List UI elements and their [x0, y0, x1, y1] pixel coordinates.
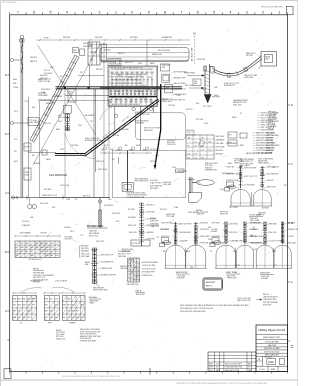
svg-text:CONN VENT: CONN VENT — [120, 129, 129, 131]
det D-D valve train assembly mid — [141, 203, 143, 246]
svg-text:LINE DWG: LINE DWG — [287, 223, 296, 225]
svg-text:HOSE: HOSE — [253, 249, 257, 251]
svg-text:PIP: PIP — [20, 251, 22, 253]
det D-D grp B base line — [215, 267, 255, 269]
tag box — [176, 169, 185, 173]
svg-text:SCH SUPT: SCH SUPT — [65, 239, 73, 241]
svg-text:SO HDR: SO HDR — [212, 229, 219, 231]
svg-text:PIPE SCH LINE VENT DWG: PIPE SCH LINE VENT DWG — [261, 7, 283, 9]
svg-text:VENT SUPT: VENT SUPT — [162, 65, 170, 67]
svg-text:FUEL FUEL: FUEL FUEL — [147, 212, 156, 214]
svg-text:PILOT PIPE: PILOT PIPE — [229, 207, 238, 209]
flexible hose curve — [213, 57, 262, 74]
svg-text:3: 3 — [246, 11, 248, 15]
svg-text:CONN REG: CONN REG — [70, 145, 79, 147]
svg-text:VEN: VEN — [72, 305, 75, 307]
skid valve rows mid — [110, 90, 112, 92]
svg-text:DET: DET — [90, 121, 93, 123]
svg-text:PILOT: PILOT — [14, 111, 18, 113]
svg-text:LIN: LIN — [18, 311, 20, 313]
svg-text:B: B — [5, 250, 7, 254]
svg-text:DET A: DET A — [196, 209, 202, 212]
svg-text:INS: INS — [35, 243, 38, 245]
det B-B left stem valve stack — [240, 166, 242, 189]
svg-text:SCH VENT: SCH VENT — [177, 278, 185, 280]
svg-text:HOSE HDR: HOSE HDR — [268, 126, 277, 128]
svg-text:FLEX PRESS: FLEX PRESS — [104, 205, 113, 207]
duct support vline — [146, 40, 148, 66]
svg-text:SUP: SUP — [23, 317, 26, 319]
svg-text:NPT: NPT — [112, 159, 115, 161]
svg-text:PIPE: PIPE — [194, 83, 197, 85]
svg-text:NOTE REG PILOT: NOTE REG PILOT — [29, 259, 42, 261]
svg-text:BURNER: BURNER — [136, 91, 143, 93]
svg-text:LINE SCH: LINE SCH — [268, 116, 276, 118]
svg-text:PIPE: PIPE — [190, 267, 193, 269]
svg-text:PRESS SUPT COCK: PRESS SUPT COCK — [42, 195, 58, 197]
svg-text:0: 0 — [131, 11, 133, 15]
svg-text:HiWay Pipes CO-01: HiWay Pipes CO-01 — [258, 328, 285, 332]
svg-text:AS BUILT: AS BUILT — [206, 281, 216, 284]
svg-text:MTG PILOT PILOT: MTG PILOT PILOT — [118, 254, 132, 256]
svg-text:TYP: TYP — [67, 317, 70, 319]
svg-text:PRESS HOSE: PRESS HOSE — [152, 54, 162, 56]
svg-text:NPT: NPT — [30, 251, 33, 253]
svg-text:SUPT SUPT: SUPT SUPT — [96, 241, 104, 243]
svg-text:DET COCK FUEL: DET COCK FUEL — [2, 2, 16, 4]
elbow swing arc — [65, 133, 95, 159]
svg-text:FUEL CONN: FUEL CONN — [250, 220, 260, 222]
svg-text:SEE FLEX: SEE FLEX — [144, 130, 153, 132]
svg-text:SUPT INST: SUPT INST — [212, 223, 220, 225]
list item boxes — [228, 132, 237, 138]
svg-text:PIL: PIL — [188, 146, 190, 148]
duct top line — [88, 44, 190, 46]
svg-text:NPT SCH: NPT SCH — [268, 124, 276, 126]
det B-B left burner bowl — [231, 190, 250, 207]
svg-text:4: 4 — [229, 11, 231, 15]
pilot detail (single) — [189, 177, 191, 193]
svg-text:REF CONN: REF CONN — [136, 294, 145, 296]
svg-text:CONN REG: CONN REG — [179, 240, 188, 242]
double gauge circles — [28, 204, 32, 208]
svg-text:REF REG: REF REG — [63, 37, 71, 39]
svg-text:SUPT NPT SEE: SUPT NPT SEE — [161, 223, 172, 225]
svg-text:PIP: PIP — [76, 311, 78, 313]
svg-text:COCK: COCK — [116, 150, 120, 152]
svg-text:DET E: DET E — [33, 269, 40, 271]
svg-text:MTG MTG: MTG MTG — [160, 209, 168, 211]
det B-B leader labels — [237, 166, 240, 169]
svg-text:VENT SCH: VENT SCH — [230, 232, 239, 234]
svg-text:VENT FLEX MTG: VENT FLEX MTG — [147, 225, 160, 227]
svg-text:SUPT: SUPT — [240, 145, 244, 147]
svg-text:PIP: PIP — [195, 154, 197, 156]
svg-text:DWG FLEX: DWG FLEX — [268, 119, 277, 121]
svg-text:BURNER FUEL: BURNER FUEL — [205, 170, 217, 172]
svg-text:INST: INST — [52, 207, 56, 209]
det B-B base line — [230, 205, 272, 207]
svg-text:SUPT FLEX REF: SUPT FLEX REF — [244, 168, 256, 170]
title block bottom row — [267, 366, 269, 371]
svg-text:INST HOSE REF: INST HOSE REF — [158, 50, 170, 52]
svg-text:BURNER NPT HOSE: BURNER NPT HOSE — [85, 140, 102, 142]
svg-text:CONN VENT TYP VENT FLEX CONN L: CONN VENT TYP VENT FLEX CONN LINE DWG HO… — [176, 383, 268, 385]
svg-text:ORIF SO: ORIF SO — [234, 163, 241, 165]
svg-text:NPT SO: NPT SO — [268, 128, 275, 130]
branch fitting w/ gauge — [10, 122, 13, 125]
svg-text:FLE: FLE — [32, 305, 35, 307]
svg-text:NPT SCH: NPT SCH — [83, 196, 91, 198]
svg-text:SUP: SUP — [76, 317, 79, 319]
grid table G1 — [13, 296, 37, 321]
small equipment cluster — [108, 59, 121, 66]
svg-text:REG DET: REG DET — [118, 53, 125, 55]
pipe support boxes at bridge top — [73, 48, 79, 53]
hline y95.6 left extension — [65, 95, 109, 97]
inclined pipe bridge A (laddered) — [30, 55, 75, 140]
svg-text:SEE: SEE — [250, 235, 253, 237]
svg-text:DET: DET — [60, 76, 63, 78]
border zone letters right — [288, 104, 290, 106]
guy-wire diagonal D1 — [33, 44, 100, 165]
svg-text:INST PIPE: INST PIPE — [81, 248, 89, 250]
svg-text:BURNER NOTE: BURNER NOTE — [222, 173, 233, 175]
svg-text:VEN: VEN — [45, 255, 48, 257]
svg-text:SEE: SEE — [130, 101, 133, 103]
svg-text:PILOT FLEX COCK: PILOT FLEX COCK — [142, 268, 157, 270]
svg-text:VEN: VEN — [45, 247, 48, 249]
overhead duct dimension line — [36, 39, 190, 41]
svg-text:PILOT: PILOT — [60, 149, 64, 151]
svg-text:HDR DET: HDR DET — [262, 208, 269, 210]
det D-D grp B left burner bowl — [216, 245, 236, 268]
svg-text:ORIF PIPE: ORIF PIPE — [167, 140, 175, 142]
svg-text:7: 7 — [17, 11, 19, 15]
drop assembly inside R2 — [127, 151, 129, 192]
overhead long duct (pill) — [100, 48, 189, 62]
svg-text:NOTE: NOTE — [220, 189, 224, 191]
svg-text:DWG FUEL: DWG FUEL — [230, 224, 239, 226]
flexible riser squiggle — [21, 40, 22, 73]
svg-text:TYP: TYP — [20, 243, 23, 245]
svg-text:LINE BURNER: LINE BURNER — [84, 115, 95, 117]
svg-text:6: 6 — [33, 11, 35, 15]
svg-text:FLEX PILOT BURNER HOSE LINE SO: FLEX PILOT BURNER HOSE LINE SO SUPT VALV… — [62, 375, 121, 378]
svg-text:SUPT COCK TYP: SUPT COCK TYP — [244, 176, 257, 178]
svg-text:VENT LINE ASSY INST VALVE BURN: VENT LINE ASSY INST VALVE BURNER FLEX SO… — [180, 304, 249, 307]
svg-text:FUE: FUE — [67, 311, 70, 313]
valve train on left riser — [67, 114, 69, 131]
det C-C grp A right stem valve stack — [195, 222, 197, 244]
svg-text:CONN DWG INST FUEL: CONN DWG INST FUEL — [225, 367, 243, 369]
det C-C grp A left stem valve stack — [175, 222, 177, 244]
burner mounting channel detail — [204, 66, 206, 95]
svg-text:FUE: FUE — [55, 255, 58, 257]
svg-text:VENT SCH: VENT SCH — [40, 78, 48, 80]
svg-text:PRESS SUPT VENT: PRESS SUPT VENT — [93, 290, 108, 292]
svg-text:SCH: SCH — [55, 305, 58, 307]
svg-text:NOT: NOT — [15, 247, 18, 249]
svg-text:NOT: NOT — [50, 247, 53, 249]
svg-text:SEE MTG DWG: SEE MTG DWG — [122, 249, 134, 251]
svg-text:FLEX LINE: FLEX LINE — [261, 276, 269, 278]
svg-text:REF SEE ORIF: REF SEE ORIF — [93, 288, 104, 290]
svg-text:INS: INS — [63, 317, 66, 319]
svg-text:BURNER PLAN: BURNER PLAN — [87, 225, 104, 228]
scan speckle — [159, 148, 162, 151]
svg-text:HOSE MAIN: HOSE MAIN — [38, 94, 48, 97]
svg-text:FUEL ORIF TYP: FUEL ORIF TYP — [174, 100, 186, 102]
svg-text:PRE: PRE — [15, 251, 18, 253]
svg-text:LINE: LINE — [124, 145, 127, 147]
meter box left of header — [68, 89, 76, 103]
svg-text:VENT BURNER: VENT BURNER — [226, 143, 238, 145]
svg-text:REG HDR: REG HDR — [216, 150, 224, 152]
svg-text:HOSE: HOSE — [44, 38, 49, 40]
svg-text:PIPE PIPE: PIPE PIPE — [197, 59, 206, 61]
svg-text:SUPT ORIF: SUPT ORIF — [266, 133, 274, 135]
svg-text:FUEL SCH: FUEL SCH — [233, 104, 242, 106]
svg-text:LINE VALVE VENT: LINE VALVE VENT — [191, 48, 194, 62]
svg-text:DET: DET — [69, 94, 72, 96]
det D-D grp B left stem valve stack — [225, 222, 227, 244]
svg-text:HDR NPT: HDR NPT — [186, 109, 193, 111]
svg-text:5: 5 — [213, 11, 215, 15]
svg-text:SCH: SCH — [55, 298, 58, 300]
as-built stamp — [203, 278, 223, 290]
svg-text:2: 2 — [99, 11, 101, 15]
svg-text:TYP PILOT: TYP PILOT — [264, 357, 272, 359]
svg-text:ASSY ASSY DET: ASSY ASSY DET — [263, 336, 281, 339]
svg-text:PIPE DET PILOT: PIPE DET PILOT — [33, 277, 45, 279]
channel internal hatch — [205, 70, 210, 72]
svg-text:LINE NOTE VALVE: LINE NOTE VALVE — [263, 296, 278, 299]
svg-text:LINE: LINE — [110, 149, 113, 151]
svg-text:BURNER MTG: BURNER MTG — [142, 275, 153, 277]
svg-text:LINE: LINE — [30, 217, 33, 219]
svg-text:GAS ORIF: GAS ORIF — [268, 344, 277, 347]
svg-text:PILOT: PILOT — [202, 89, 206, 91]
svg-text:REF VENT: REF VENT — [150, 188, 158, 190]
svg-text:DET F: DET F — [56, 330, 63, 332]
svg-text:SUP: SUP — [137, 264, 140, 266]
level control valve box on riser — [24, 143, 31, 151]
det B-B right stem valve stack — [261, 166, 263, 189]
svg-text:SCH: SCH — [14, 139, 17, 141]
svg-text:CONN: CONN — [13, 87, 19, 89]
svg-text:A: A — [291, 280, 293, 284]
svg-text:NPT DWG: NPT DWG — [196, 119, 204, 121]
svg-text:BURNER: BURNER — [69, 323, 77, 325]
svg-text:NOTE SEE GAS: NOTE SEE GAS — [38, 99, 51, 102]
svg-text:SCH LINE: SCH LINE — [112, 135, 119, 137]
svg-text:PIP: PIP — [13, 311, 15, 313]
KO drum boxes above header — [88, 42, 100, 65]
svg-text:FUEL: FUEL — [208, 239, 212, 241]
svg-text:FUEL: FUEL — [73, 50, 77, 52]
svg-text:PILOT INST: PILOT INST — [203, 106, 212, 108]
det E-E grp C right burner bowl — [274, 245, 291, 268]
svg-text:REF NOTE: REF NOTE — [220, 212, 228, 214]
svg-text:DWG DET: DWG DET — [95, 37, 103, 39]
svg-text:ORIF SCH: ORIF SCH — [234, 159, 242, 161]
svg-text:FUEL: FUEL — [138, 63, 142, 65]
svg-text:TYP: TYP — [80, 235, 83, 237]
riser secondary line — [28, 97, 30, 198]
svg-text:PIPE: PIPE — [48, 323, 52, 325]
svg-text:INST FLEX: INST FLEX — [58, 117, 66, 119]
svg-text:PIPE LINE PIPE LINE HDR VENT: PIPE LINE PIPE LINE HDR VENT — [180, 311, 206, 313]
det D-D grp B leader labels — [222, 222, 225, 225]
svg-text:ORIF: ORIF — [272, 167, 276, 169]
det E-E grp C left burner bowl — [256, 245, 274, 268]
svg-text:HOSE COCK: HOSE COCK — [251, 223, 262, 225]
svg-text:DWG SEE DWG: DWG SEE DWG — [127, 284, 140, 286]
channel arrows — [187, 75, 205, 77]
svg-text:TYP: TYP — [74, 199, 77, 201]
svg-text:NPT DWG: NPT DWG — [65, 237, 73, 239]
svg-text:FUEL: FUEL — [78, 125, 82, 127]
svg-text:A: A — [5, 309, 7, 313]
svg-text:FUEL HOSE: FUEL HOSE — [216, 147, 225, 149]
svg-text:HDR PIPE SEE: HDR PIPE SEE — [33, 273, 44, 275]
svg-text:FUEL VENT: FUEL VENT — [186, 134, 195, 136]
svg-text:TYP CONN: TYP CONN — [166, 216, 175, 218]
svg-text:NPT: NPT — [284, 185, 287, 187]
svg-text:BUR: BUR — [209, 142, 212, 144]
orifice grid table G0 — [15, 241, 60, 258]
svg-text:NOTE: NOTE — [236, 265, 240, 267]
svg-text:SCH FLEX: SCH FLEX — [150, 180, 159, 182]
svg-text:NPT: NPT — [80, 72, 83, 74]
svg-text:LINE NOTE ORIF: LINE NOTE ORIF — [237, 300, 250, 302]
det C-C grp A leader labels — [172, 222, 175, 225]
svg-text:2: 2 — [262, 11, 264, 15]
svg-text:FUEL PRESS: FUEL PRESS — [41, 89, 50, 91]
svg-text:SCH CONN DWG NPT: SCH CONN DWG NPT — [80, 334, 96, 336]
svg-text:SEE: SEE — [248, 370, 251, 372]
header junction tees — [64, 87, 66, 89]
svg-text:FUE: FUE — [23, 305, 26, 307]
branch line to manifold — [29, 152, 57, 154]
svg-text:BURNER NPT: BURNER NPT — [224, 85, 235, 87]
svg-text:GAS MANIFOLD: GAS MANIFOLD — [49, 174, 67, 177]
svg-text:3: 3 — [82, 11, 84, 15]
svg-text:CONN: CONN — [176, 95, 180, 97]
svg-text:VENT GAS DWG: VENT GAS DWG — [265, 354, 280, 357]
det A-A valve stack assembly — [94, 248, 96, 284]
svg-text:PIPE MTG: PIPE MTG — [30, 57, 38, 59]
det C-C grp A pilot mixer cluster — [162, 238, 169, 243]
det E-E grp C left stem valve stack — [264, 222, 266, 244]
thermowell detail — [99, 198, 101, 229]
svg-text:NOTE DET: NOTE DET — [263, 304, 272, 306]
svg-text:FLEX FLEX: FLEX FLEX — [163, 182, 172, 184]
svg-text:SUPT REG: SUPT REG — [150, 221, 159, 223]
svg-text:REF SCH: REF SCH — [216, 154, 224, 156]
svg-text:FUEL SCH: FUEL SCH — [129, 232, 138, 234]
skid valve row 1 — [111, 71, 113, 73]
svg-text:CONN BURNER PLAN: CONN BURNER PLAN — [127, 196, 145, 199]
svg-text:C: C — [291, 344, 294, 349]
flag symbols — [114, 114, 117, 117]
main gas header H1 — [56, 86, 183, 88]
svg-text:NPT TYP: NPT TYP — [44, 70, 50, 72]
svg-text:FUEL: FUEL — [13, 79, 17, 81]
svg-text:INST TYP: INST TYP — [266, 135, 273, 137]
branch hline above header — [78, 75, 104, 77]
det B-B pilot mixer cluster — [227, 182, 234, 187]
svg-text:VENT: VENT — [272, 251, 276, 253]
det C-C grp A left burner bowl — [166, 245, 186, 268]
svg-text:FUEL: FUEL — [129, 150, 133, 152]
svg-text:8: 8 — [164, 11, 166, 15]
svg-text:5: 5 — [50, 11, 52, 15]
svg-text:MTG NPT SO REF: MTG NPT SO REF — [264, 348, 280, 350]
svg-text:K02: K02 — [268, 360, 274, 364]
title block outline — [256, 325, 288, 372]
svg-text:HOSE NOTE: HOSE NOTE — [178, 171, 187, 173]
svg-text:SUPT NPT SCH SUPT SCH: SUPT NPT SCH SUPT SCH — [80, 331, 101, 333]
bracket list — [78, 245, 81, 258]
svg-text:DET: DET — [233, 251, 236, 253]
svg-text:1: 1 — [278, 11, 280, 15]
svg-text:VENT NOTE TYP: VENT NOTE TYP — [101, 255, 114, 257]
svg-text:REF REF: REF REF — [96, 69, 103, 71]
svg-text:LINE: LINE — [162, 67, 165, 69]
svg-text:SO NOTE SEE: SO NOTE SEE — [265, 342, 279, 344]
hose fittings — [227, 73, 230, 77]
svg-text:BURNER NPT: BURNER NPT — [162, 37, 172, 39]
svg-text:M: M — [193, 32, 195, 36]
svg-text:ORIF COCK: ORIF COCK — [167, 144, 177, 146]
svg-text:COCK DWG: COCK DWG — [147, 218, 157, 220]
corner box top-right — [286, 7, 293, 15]
svg-text:NPT: NPT — [14, 151, 17, 153]
border zone letters left — [7, 74, 9, 76]
svg-text:D: D — [5, 132, 7, 136]
svg-text:SO LINE: SO LINE — [128, 209, 134, 211]
svg-text:ORIF FUEL CONN BURNER: ORIF FUEL CONN BURNER — [33, 275, 54, 277]
border zone ticks top — [9, 12, 11, 15]
svg-text:7: 7 — [180, 11, 182, 15]
corner box bottom-left — [4, 369, 11, 379]
svg-text:REF NOTE: REF NOTE — [268, 112, 276, 114]
svg-text:PLAN TYP GAS: PLAN TYP GAS — [38, 80, 51, 83]
svg-text:SEE: SEE — [23, 298, 26, 300]
svg-text:HOSE: HOSE — [25, 147, 31, 149]
det B-B right burner bowl — [253, 190, 271, 206]
svg-text:FUEL SCH: FUEL SCH — [269, 232, 278, 234]
svg-text:SCH COCK COCK: SCH COCK COCK — [264, 352, 280, 354]
svg-text:C: C — [291, 162, 293, 166]
svg-text:SCH LINE REG: SCH LINE REG — [80, 338, 92, 340]
det D-D grp B pilot mixer cluster — [212, 238, 219, 243]
svg-text:PILOT SUPT: PILOT SUPT — [234, 161, 243, 163]
svg-text:SO: SO — [195, 142, 197, 144]
pill bottom emphasis — [100, 59, 189, 61]
svg-text:NPT: NPT — [90, 59, 93, 61]
det E-E grp C leader labels — [261, 222, 264, 225]
det D-D grp B right stem valve stack — [244, 222, 246, 244]
burner block profile under pilot — [189, 192, 202, 202]
svg-text:INST: INST — [271, 369, 277, 371]
skid lower fittings — [110, 99, 112, 102]
grid table G3 — [62, 296, 85, 321]
svg-text:SEE: SEE — [128, 264, 131, 266]
svg-text:SCH: SCH — [194, 81, 197, 83]
